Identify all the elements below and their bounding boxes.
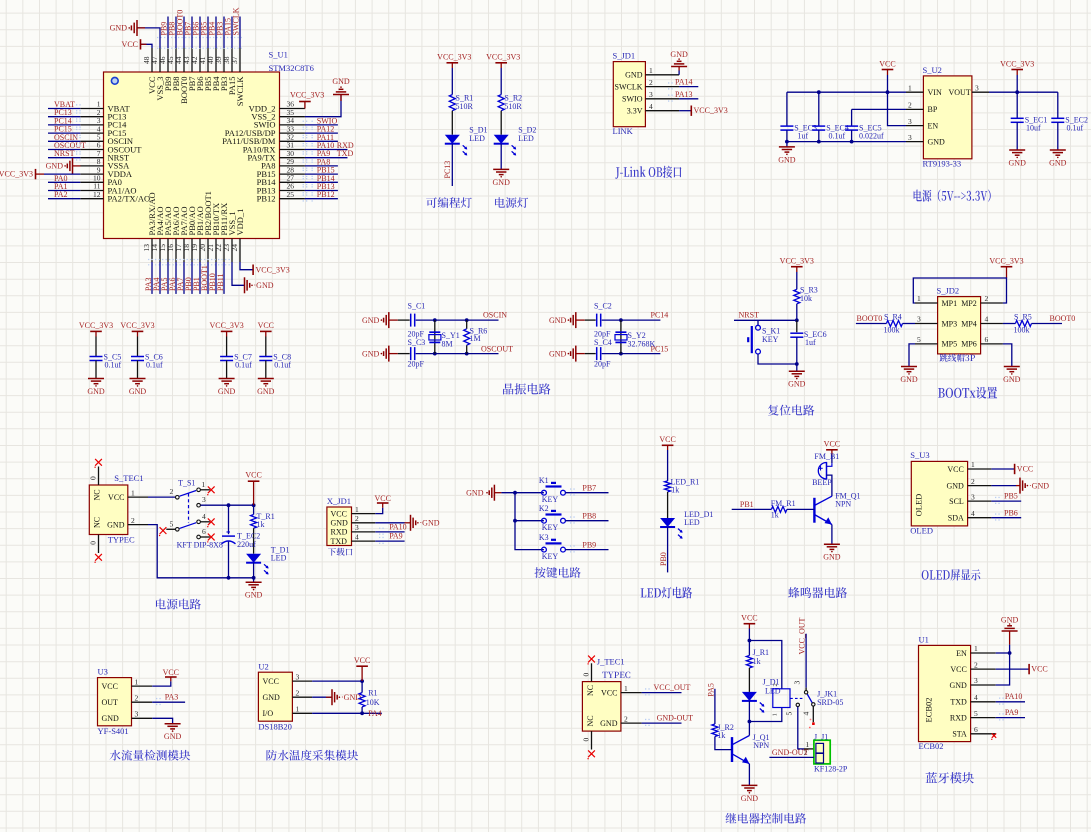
svg-text:GND: GND bbox=[218, 387, 236, 396]
wire S_C3 left bbox=[398, 353, 410, 355]
wire U3 VCC bbox=[152, 681, 171, 686]
resistor S_R2 510R bbox=[498, 95, 504, 111]
wire VIN rail bbox=[787, 91, 906, 93]
svg-text:20pF: 20pF bbox=[408, 360, 425, 369]
svg-text:VCC_3V3: VCC_3V3 bbox=[780, 257, 814, 266]
svg-text:GND: GND bbox=[362, 316, 380, 325]
svg-text:GND: GND bbox=[823, 553, 841, 562]
svg-text:STA: STA bbox=[952, 730, 967, 739]
MCU pin 10 PA0 bbox=[80, 181, 103, 183]
svg-text:4: 4 bbox=[649, 102, 653, 111]
svg-text:S_C3: S_C3 bbox=[408, 338, 426, 347]
junction EC6-GND bbox=[795, 362, 799, 366]
ground right of X_JD1 pin2 bbox=[410, 515, 412, 531]
svg-text:1: 1 bbox=[355, 505, 359, 514]
connector S_TEC1 pin 1 VCC bbox=[128, 496, 148, 498]
connector S_JD1 pin 3 SWIO bbox=[645, 98, 679, 100]
wire FM_R1 to base bbox=[787, 508, 815, 510]
wire net NRST bbox=[734, 319, 797, 321]
svg-text:VCC_3V3: VCC_3V3 bbox=[486, 53, 520, 62]
MCU logo dot bbox=[111, 77, 118, 84]
MCU pin 47 VSS_3 bbox=[159, 48, 161, 72]
connector J_TEC1 pin 0 top bbox=[591, 663, 593, 681]
svg-text:S_R5: S_R5 bbox=[1014, 313, 1032, 322]
module U2 pin 3 VCC bbox=[292, 680, 312, 682]
svg-text:I/O: I/O bbox=[263, 709, 274, 718]
wire MCU pin 23 VSS_1 to GND bbox=[232, 262, 245, 285]
svg-text:1M: 1M bbox=[470, 334, 481, 343]
svg-text:PB8: PB8 bbox=[582, 512, 596, 521]
svg-text:GND: GND bbox=[362, 349, 380, 358]
resistor S_R3 10k bbox=[794, 289, 800, 303]
svg-text:ECB02: ECB02 bbox=[924, 697, 934, 722]
svg-text:PA10: PA10 bbox=[389, 522, 407, 531]
module U3 pin 1 VCC bbox=[132, 685, 153, 687]
svg-text:510R: 510R bbox=[456, 102, 474, 111]
svg-text:SCL: SCL bbox=[949, 497, 964, 506]
power VCC_3V3 at MCU pin 36 bbox=[304, 102, 306, 109]
wire contact 5 stub bbox=[166, 528, 175, 530]
svg-text:5: 5 bbox=[917, 335, 921, 344]
svg-text:VCC: VCC bbox=[741, 614, 757, 623]
MCU pin 43 PB7 bbox=[191, 48, 193, 72]
junction collector node bbox=[748, 720, 752, 724]
svg-text:2: 2 bbox=[624, 714, 628, 723]
ground below S_C7 bbox=[219, 378, 235, 380]
svg-text:SRD-05: SRD-05 bbox=[817, 698, 843, 707]
svg-text:VOUT: VOUT bbox=[949, 88, 971, 97]
svg-text:PB9: PB9 bbox=[582, 541, 596, 550]
junction VCC-R1 bbox=[360, 679, 364, 683]
selection dots PB14 bbox=[303, 178, 313, 185]
svg-text:3: 3 bbox=[974, 676, 978, 685]
module U1 ECB02 body bbox=[919, 645, 971, 741]
connector J_TEC1 pin 2 GND bbox=[621, 722, 642, 724]
svg-text:2: 2 bbox=[772, 683, 779, 686]
svg-text:T_S1: T_S1 bbox=[178, 479, 195, 488]
button K3 KEY bbox=[542, 547, 547, 552]
ground above S_JD1 pin1 bbox=[678, 67, 680, 71]
wire net PA8 bbox=[305, 165, 338, 167]
MCU pin 33 PA12/USB/DP bbox=[280, 132, 305, 134]
svg-text:KEY: KEY bbox=[542, 495, 559, 504]
MCU pin 14 PA4/AO bbox=[159, 239, 161, 263]
svg-text:J_J1: J_J1 bbox=[814, 733, 828, 742]
regulator S_U2 pin 2 BP bbox=[906, 108, 923, 110]
wire S_C1 to OSCIN bbox=[416, 319, 499, 321]
svg-text:S_R4: S_R4 bbox=[884, 313, 902, 322]
relay J_JK1 switch dashed link bbox=[790, 697, 803, 699]
MCU pin 46 PB9 bbox=[167, 48, 169, 72]
wire GND rail bbox=[787, 141, 906, 143]
svg-text:VCC: VCC bbox=[331, 509, 347, 518]
svg-text:LED: LED bbox=[518, 134, 534, 143]
MCU pin 20 PB2/BOOT1 bbox=[207, 239, 209, 263]
svg-text:3.3V: 3.3V bbox=[627, 107, 643, 116]
selection dots PA9 bbox=[303, 153, 313, 160]
wire net PA12 bbox=[305, 132, 338, 134]
svg-text:PB11: PB11 bbox=[216, 274, 225, 292]
svg-text:VCC: VCC bbox=[879, 60, 895, 69]
svg-text:0.1uf: 0.1uf bbox=[235, 361, 252, 370]
wire EC1 to GND bbox=[1016, 122, 1018, 150]
junction PC15-crystal bbox=[619, 352, 623, 356]
wire BOOT0 left bbox=[856, 323, 887, 325]
wire J_R2 to base bbox=[715, 737, 732, 750]
no-connect X at contact 1 bbox=[208, 486, 215, 493]
relay contact 5 bbox=[796, 703, 799, 706]
wire S_D1 to PC13 bbox=[451, 144, 453, 186]
selection dots PC14 bbox=[76, 121, 81, 128]
relay J_JK1 switch arm bbox=[807, 694, 812, 703]
connector S_JD1 pin 4 3.3V bbox=[645, 110, 679, 112]
wire EC4 column bbox=[818, 92, 820, 126]
ground below U3 bbox=[165, 723, 181, 725]
connector S_JD1 pin 1 GND bbox=[645, 74, 679, 76]
resistor S_R1 510R bbox=[449, 95, 455, 111]
svg-text:VCC: VCC bbox=[163, 668, 179, 677]
wire S_R2 to S_D2 bbox=[500, 111, 502, 135]
capacitor S_EC2 0.1uf bbox=[1051, 117, 1064, 119]
svg-text:20pF: 20pF bbox=[594, 360, 611, 369]
selection dot rows bottom pins bbox=[148, 260, 230, 265]
svg-text:1uf: 1uf bbox=[805, 338, 816, 347]
connector S_TEC1 pin 0 top bbox=[98, 467, 100, 486]
svg-text:100k: 100k bbox=[1014, 326, 1030, 335]
svg-text:OLED: OLED bbox=[910, 526, 933, 536]
title power 5V to 3.3V bbox=[914, 190, 991, 202]
svg-text:PA2/TX/AO: PA2/TX/AO bbox=[108, 194, 151, 204]
connector J_TEC1 pin 1 VCC bbox=[621, 692, 642, 694]
wire contact 1 stub bbox=[201, 489, 210, 491]
svg-text:VCC_3V3: VCC_3V3 bbox=[290, 91, 324, 100]
regulator S_U2 pin 3 VOUT bbox=[972, 91, 989, 93]
MCU pin 16 PA6/AO bbox=[175, 239, 177, 263]
MCU pin 31 PA10/RX bbox=[280, 149, 305, 151]
ground at MCU pin 23 bbox=[244, 277, 246, 293]
resistor S_R6 1M bbox=[462, 329, 471, 345]
svg-text:PC14: PC14 bbox=[651, 311, 669, 320]
LED S_D1 bbox=[445, 135, 460, 144]
transistor FM_Q1 NPN bbox=[813, 498, 815, 523]
wire S_C5 top bbox=[95, 337, 97, 357]
svg-text:3: 3 bbox=[296, 672, 300, 681]
jumper S_JD2 pins 1/2 MP1/MP2 bbox=[915, 302, 938, 304]
wire net PA14 bbox=[679, 86, 698, 88]
jumper S_JD2 pins 5/6 MP5/MP6 bbox=[915, 343, 938, 345]
MCU pin 2 PC13 bbox=[80, 116, 103, 118]
svg-text:NPN: NPN bbox=[835, 500, 851, 509]
svg-text:VCC: VCC bbox=[354, 656, 370, 665]
wire contact 4 stub bbox=[201, 521, 210, 523]
MCU pin 45 PB8 bbox=[175, 48, 177, 72]
svg-text:LED: LED bbox=[469, 134, 485, 143]
wire S_C3 to OSCOUT bbox=[416, 353, 499, 355]
wire net PB13 bbox=[305, 190, 338, 192]
wire S_JD2 pin5 to GND bbox=[909, 344, 915, 367]
svg-text:GND: GND bbox=[257, 387, 275, 396]
MCU pin 17 PA7/AO bbox=[183, 239, 185, 263]
svg-text:X_JD1: X_JD1 bbox=[327, 496, 351, 506]
connector X_JD1 pin 1 VCC bbox=[352, 513, 376, 515]
relay J_JK1 coil bbox=[773, 689, 790, 708]
MCU pin 42 PB6 bbox=[199, 48, 201, 72]
svg-text:1k: 1k bbox=[753, 657, 761, 666]
connector J_TEC1 body bbox=[582, 682, 621, 732]
ground left of S_C4 bbox=[575, 346, 577, 362]
ground below T_D1 bbox=[246, 581, 262, 583]
svg-text:VCC_OUT: VCC_OUT bbox=[797, 617, 806, 654]
svg-text:10K: 10K bbox=[366, 698, 380, 707]
svg-text:PB1: PB1 bbox=[740, 500, 754, 509]
module U2 pin 1 I/O bbox=[292, 712, 312, 714]
wire U2 I/O net PA4 bbox=[312, 712, 382, 714]
wire net PB0 bbox=[191, 262, 193, 294]
wire net PA9 download bbox=[375, 540, 404, 542]
wire U3 GND bbox=[152, 718, 172, 723]
svg-text:4: 4 bbox=[985, 315, 989, 324]
resistor FM_R1 1k bbox=[771, 506, 787, 512]
MCU pin 5 OSCIN bbox=[80, 140, 103, 142]
title programmable LED bbox=[426, 197, 472, 208]
svg-text:MP1: MP1 bbox=[942, 299, 958, 308]
wire S_JD1 pin4 to VCC_3V3 bbox=[679, 110, 691, 112]
selection dots PA11 bbox=[303, 137, 313, 144]
wire S_C7 bottom bbox=[226, 361, 228, 379]
svg-text:J_TEC1: J_TEC1 bbox=[597, 657, 625, 667]
svg-text:VIN: VIN bbox=[928, 88, 942, 97]
svg-text:TXD: TXD bbox=[950, 698, 967, 707]
title BOOTx setting bbox=[938, 387, 997, 399]
svg-text:VCC_3V3: VCC_3V3 bbox=[120, 321, 154, 330]
display S_U3 pin 2 GND bbox=[968, 485, 992, 487]
ground below J_Q1 bbox=[741, 784, 757, 786]
svg-text:1k: 1k bbox=[257, 520, 265, 529]
title crystal circuit bbox=[503, 383, 550, 394]
ground at S_U3 bbox=[1019, 478, 1021, 494]
svg-text:VCC: VCC bbox=[258, 321, 274, 330]
svg-text:MP6: MP6 bbox=[961, 340, 977, 349]
svg-text:0.1uf: 0.1uf bbox=[105, 361, 122, 370]
wire MCU pin 47 VSS_3 to GND bbox=[137, 28, 160, 48]
svg-text:SWCLK: SWCLK bbox=[235, 76, 245, 107]
svg-text:2: 2 bbox=[985, 294, 989, 303]
wire net OSCIN bbox=[48, 140, 80, 142]
svg-text:S_U1: S_U1 bbox=[269, 50, 288, 60]
MCU pin 19 PB1/AO bbox=[199, 239, 201, 263]
wire S_C1 left bbox=[398, 319, 410, 321]
wire S_JD2 pin6 to GND bbox=[1003, 344, 1012, 367]
wire net BOOT1 bbox=[207, 262, 209, 294]
title relay control circuit bbox=[726, 813, 807, 824]
svg-text:SWCLK: SWCLK bbox=[615, 82, 643, 91]
svg-text:BOOT0: BOOT0 bbox=[1050, 314, 1076, 323]
svg-text:OSCOUT: OSCOUT bbox=[481, 345, 513, 354]
svg-text:VCC_3V3: VCC_3V3 bbox=[79, 321, 113, 330]
wire LED_D1 to PB0 bbox=[667, 527, 669, 572]
wire S_C5 bottom bbox=[95, 361, 97, 379]
capacitor T_EC2 220uf polarized bbox=[228, 505, 230, 534]
svg-text:8M: 8M bbox=[442, 340, 453, 349]
regulator S_U2 pin 3 EN bbox=[906, 125, 923, 127]
no-connect marker at pin 4 bbox=[812, 722, 815, 725]
svg-text:S_U3: S_U3 bbox=[910, 450, 929, 460]
svg-text:VCC: VCC bbox=[122, 40, 138, 49]
wire LED_R1 to LED_D1 bbox=[667, 492, 669, 518]
svg-text:GND: GND bbox=[331, 519, 349, 528]
ground below S_C6 bbox=[130, 378, 146, 380]
wire net PB12 bbox=[305, 198, 338, 200]
svg-text:0.022uf: 0.022uf bbox=[859, 132, 884, 141]
junction R1-PA4 bbox=[360, 711, 364, 715]
wire VCC node to coil top bbox=[749, 641, 781, 689]
svg-text:GND: GND bbox=[949, 681, 967, 690]
wire S_C6 top bbox=[137, 337, 139, 357]
MCU pin 4 PC15 bbox=[80, 132, 103, 134]
wire S_R4 to pin 3 bbox=[903, 323, 916, 325]
svg-text:PA13: PA13 bbox=[675, 90, 693, 99]
svg-text:4: 4 bbox=[355, 532, 359, 541]
wire S_C4 to PC15 bbox=[602, 353, 661, 355]
wire K3 to PB9 bbox=[565, 549, 608, 551]
svg-text:1: 1 bbox=[135, 677, 139, 686]
wire net PA0 bbox=[48, 181, 80, 183]
module U1 pin 5 RXD bbox=[971, 717, 996, 719]
svg-text:BOOT0: BOOT0 bbox=[857, 314, 883, 323]
svg-text:KEY: KEY bbox=[542, 523, 559, 532]
regulator S_U2 pin 1 VIN bbox=[906, 91, 923, 93]
svg-text:5: 5 bbox=[784, 712, 793, 716]
junction OSCOUT-R6 bbox=[465, 352, 469, 356]
svg-text:1k: 1k bbox=[671, 486, 679, 495]
display S_U3 pin 4 SDA bbox=[968, 517, 992, 519]
svg-text:3: 3 bbox=[908, 133, 912, 142]
svg-text:5: 5 bbox=[170, 519, 174, 528]
selection dots OSCOUT bbox=[76, 145, 81, 152]
wire J_R1 to J_D1 bbox=[748, 668, 750, 692]
svg-text:LED: LED bbox=[271, 554, 287, 563]
svg-text:VCC: VCC bbox=[947, 465, 963, 474]
MCU pin 12 PA2/TX/AO bbox=[80, 198, 103, 200]
svg-text:GND: GND bbox=[493, 178, 511, 187]
wire net PC14 bbox=[48, 124, 80, 126]
svg-text:U1: U1 bbox=[919, 635, 929, 645]
svg-text:0: 0 bbox=[89, 476, 98, 480]
switch T_S1 dashed link bbox=[188, 493, 190, 523]
svg-text:SWIO: SWIO bbox=[622, 95, 643, 104]
selection dots PB13 bbox=[303, 186, 313, 193]
svg-text:FM_R1: FM_R1 bbox=[771, 499, 796, 508]
svg-text:GND: GND bbox=[778, 155, 796, 164]
svg-text:GND: GND bbox=[107, 520, 125, 529]
wire VCC to J_R1 and relay coil bbox=[748, 629, 750, 656]
svg-text:1: 1 bbox=[917, 294, 921, 303]
wire net PB5 bbox=[991, 500, 1021, 502]
wire net PB14 bbox=[305, 181, 338, 183]
capacitor S_C1 20pF bbox=[410, 314, 412, 327]
svg-text:GND: GND bbox=[102, 714, 120, 723]
connector S_TEC1 pin 2 GND bbox=[128, 524, 148, 526]
module U3 pin 2 OUT bbox=[132, 701, 153, 703]
MCU pin 38 PA15 bbox=[231, 48, 233, 72]
wire S_R1 to S_D1 bbox=[451, 111, 453, 135]
svg-text:PA9: PA9 bbox=[389, 532, 403, 541]
svg-text:PB6: PB6 bbox=[1004, 508, 1018, 517]
junction VCC node bbox=[748, 639, 752, 643]
MCU pin 34 SWIO bbox=[280, 124, 305, 126]
LED T_D1 bbox=[246, 554, 261, 563]
wire crystal S_Y1 branch bbox=[434, 320, 436, 354]
svg-text:U3: U3 bbox=[98, 667, 108, 677]
junction VIN-VCC bbox=[886, 90, 890, 94]
svg-text:MP5: MP5 bbox=[942, 340, 958, 349]
svg-text:VCC_3V3: VCC_3V3 bbox=[989, 257, 1023, 266]
svg-text:24: 24 bbox=[230, 244, 239, 252]
junction bottom rail at LED bbox=[252, 576, 256, 580]
svg-text:KF128-2P: KF128-2P bbox=[814, 765, 848, 774]
wire K1 to PB7 bbox=[565, 492, 608, 494]
svg-text:0: 0 bbox=[89, 541, 98, 545]
svg-text:12: 12 bbox=[93, 190, 101, 199]
MCU pin 30 PA9/TX bbox=[280, 157, 305, 159]
wire net SWIO bbox=[305, 124, 338, 126]
svg-text:SDA: SDA bbox=[948, 514, 964, 523]
svg-text:2: 2 bbox=[974, 660, 978, 669]
selection dots PB15 bbox=[303, 170, 313, 177]
switch T_S1 contact 2 bbox=[176, 496, 180, 500]
selection dots PA8 bbox=[303, 162, 313, 169]
capacitor S_C4 20pF bbox=[596, 347, 598, 360]
svg-text:S_U2: S_U2 bbox=[923, 65, 942, 75]
button K1 KEY bbox=[542, 490, 547, 495]
svg-text:3: 3 bbox=[917, 315, 921, 324]
MCU pin 23 VSS_1 bbox=[231, 239, 233, 263]
MCU pin 9 VDDA bbox=[80, 173, 103, 175]
svg-text:1k: 1k bbox=[717, 731, 725, 740]
svg-text:0.1uf: 0.1uf bbox=[1067, 124, 1084, 133]
regulator S_U2 body bbox=[923, 76, 972, 159]
ground below S_D2 bbox=[493, 168, 509, 170]
wire X_JD1 pin1 to VCC bbox=[375, 508, 382, 514]
svg-text:PB7: PB7 bbox=[582, 484, 596, 493]
power VCC at S_U3 bbox=[1014, 464, 1016, 474]
svg-text:1: 1 bbox=[131, 488, 135, 497]
junction GND-EC5 bbox=[850, 140, 854, 144]
connector X_JD1 body bbox=[327, 507, 352, 546]
svg-text:NPN: NPN bbox=[753, 741, 769, 750]
switch T_S1 contact 6 bbox=[197, 535, 201, 539]
no-connect at STA bbox=[992, 733, 996, 737]
wire contact 6 stub bbox=[201, 536, 210, 538]
svg-text:TXD: TXD bbox=[331, 537, 348, 546]
svg-text:4: 4 bbox=[971, 509, 975, 518]
svg-text:·GND: ·GND bbox=[1029, 481, 1049, 490]
wire S_C4 left bbox=[585, 353, 596, 355]
wire net OSCOUT bbox=[48, 149, 80, 151]
wire GND to EN and GND pin bbox=[1009, 631, 1011, 645]
svg-text:OLED: OLED bbox=[914, 494, 924, 517]
selection dots PA12 bbox=[303, 129, 313, 136]
svg-text:VCC: VCC bbox=[108, 493, 124, 502]
svg-text:GND: GND bbox=[600, 719, 618, 728]
svg-text:1k: 1k bbox=[771, 511, 779, 520]
MCU pin 8 VSSA bbox=[80, 165, 103, 167]
svg-text:S_C1: S_C1 bbox=[408, 302, 426, 311]
svg-text:GND: GND bbox=[900, 375, 918, 384]
wire TEC1 pin1 to switch pin2 bbox=[148, 496, 175, 498]
wire MCU pin 24 VDD_1 to VCC_3V3 bbox=[240, 262, 253, 270]
svg-text:2: 2 bbox=[355, 514, 359, 523]
